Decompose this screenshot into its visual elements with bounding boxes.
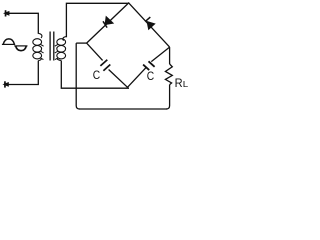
svg-text:C: C <box>147 69 155 83</box>
svg-text:R: R <box>175 76 183 90</box>
svg-text:L: L <box>183 79 189 89</box>
svg-text:C: C <box>93 68 101 82</box>
